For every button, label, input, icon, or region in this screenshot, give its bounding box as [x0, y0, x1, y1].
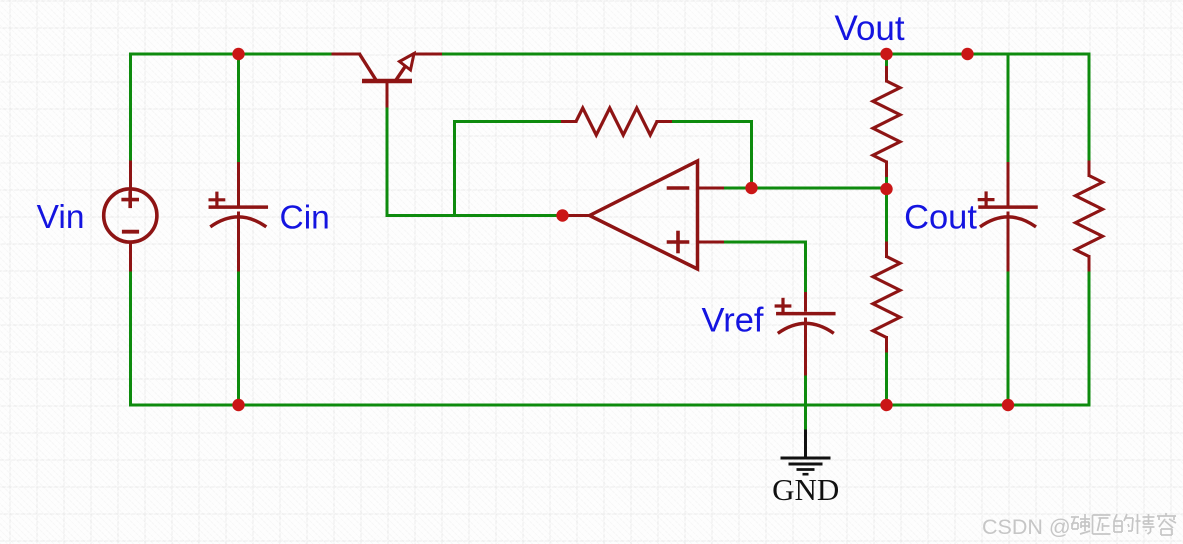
svg-text:Vin: Vin — [37, 199, 85, 236]
svg-text:Cout: Cout — [904, 198, 977, 236]
svg-text:CSDN @: CSDN @ — [982, 515, 1071, 539]
svg-text:Vref: Vref — [702, 302, 764, 340]
svg-text:Cin: Cin — [280, 199, 330, 236]
svg-text:GND: GND — [772, 472, 839, 507]
svg-text:Vout: Vout — [835, 9, 905, 48]
